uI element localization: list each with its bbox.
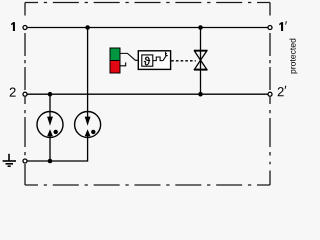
wire: GDT2 to earth rail [50, 137, 88, 161]
wire: suppressor branch [200, 28, 202, 95]
label terminal 1' [279, 21, 287, 31]
terminal 1' [268, 26, 272, 30]
terminal 2' [268, 92, 272, 96]
enclosure dash-dot border [25, 3, 270, 186]
label terminal 2 [10, 88, 16, 97]
label terminal 1 [11, 22, 15, 31]
wire line 1 (top rail) [25, 27, 270, 29]
label terminal 2' [278, 86, 287, 96]
theta label [144, 57, 150, 65]
ground symbol [3, 154, 16, 166]
wire: GDT2 drop from line 1 [87, 28, 89, 112]
junction on line 2 at suppressor branch [198, 92, 203, 97]
gas discharge tube GDT2 [75, 112, 101, 138]
indicator linkage to disconnector [120, 53, 138, 60]
ground terminal [23, 159, 27, 163]
gas discharge tube GDT1 [37, 112, 63, 138]
junction on line 1 at GDT2 branch [85, 25, 90, 30]
thermal disconnector box U1 [138, 51, 170, 70]
wire: earth rail to ground terminal [25, 160, 50, 162]
terminal 1 [23, 26, 27, 30]
status indicator red window [110, 61, 120, 74]
dashed mechanical link disconnector-to-suppressor [171, 60, 196, 62]
junction on earth rail [48, 159, 53, 164]
wire: GDT1 drop from line 2 [49, 94, 51, 111]
junction on line 1 at suppressor branch [198, 25, 203, 30]
suppressor element (bidirectional breakdown diode) [194, 50, 208, 70]
theta box [142, 55, 153, 66]
disconnector switch symbol [153, 57, 163, 61]
wire: GDT1 to earth rail [49, 137, 51, 161]
status indicator green window [110, 48, 120, 61]
wire line 2 (bottom rail) [25, 93, 270, 95]
terminal 2 [23, 92, 27, 96]
label protected (rotated) [289, 39, 297, 74]
junction on line 2 at GDT1 branch [48, 92, 53, 97]
